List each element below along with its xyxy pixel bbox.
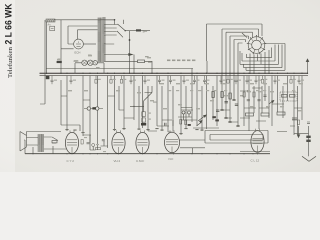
tube V5 envelope bbox=[165, 130, 180, 152]
capacitor bbox=[183, 76, 186, 85]
label near C2 bbox=[74, 60, 78, 61]
antenna coupling box A2 bbox=[50, 26, 55, 30]
capacitor C10 (dark) bbox=[141, 123, 146, 126]
resistor R20 (vertical) bbox=[297, 120, 299, 125]
tube V1 envelope bbox=[74, 39, 84, 54]
wire: box feed bbox=[180, 148, 205, 154]
resistor R26 bbox=[96, 148, 101, 150]
wire: socket loop 6 bbox=[238, 43, 243, 126]
capacitor C22 bbox=[247, 100, 250, 101]
wire: vertical x298.5 bottom bbox=[294, 126, 309, 136]
wire: vertical x148 bbox=[147, 86, 149, 131]
fuse F1 bbox=[136, 29, 145, 33]
scattered small labels bbox=[57, 55, 303, 111]
wire: vertical x124 bbox=[123, 76, 125, 130]
rectifier arrow D1 bbox=[127, 53, 133, 55]
value label bbox=[197, 80, 200, 81]
resistor R27 (vertical) bbox=[180, 120, 182, 125]
wire: R1 leads bbox=[145, 60, 153, 62]
resistor R13 (vertical) bbox=[243, 92, 245, 97]
ground bus (bottom) bbox=[25, 153, 270, 155]
wire: speaker to T2 bbox=[29, 137, 66, 149]
wire: vertical x287.5 bbox=[287, 76, 289, 101]
capacitor C2 (dark, on V1 drop) bbox=[57, 61, 62, 63]
junction dots on ground bus bbox=[32, 153, 258, 154]
value label bbox=[173, 80, 176, 81]
ferrite bead FB1 bbox=[92, 107, 95, 109]
fuse F2 on HT bus bbox=[46, 76, 50, 79]
capacitor C31 bbox=[307, 122, 310, 123]
capacitor bbox=[298, 76, 301, 85]
resistor R14 (vertical) bbox=[253, 92, 255, 97]
wire: vertical x244 bbox=[243, 76, 245, 126]
tube socket U1 inner ring bbox=[252, 40, 262, 50]
value label bbox=[73, 80, 76, 81]
wire: V5 anode link bbox=[180, 139, 206, 141]
wire: vertical x283 bbox=[282, 86, 284, 118]
resistor R25 (vertical) bbox=[81, 140, 83, 145]
transformer T1 core bbox=[101, 18, 102, 63]
junction bbox=[129, 39, 131, 41]
volume pot cluster wires bbox=[181, 110, 219, 128]
wire: vertical x249 bbox=[248, 76, 250, 131]
wire: ladder rail 2 bbox=[242, 45, 275, 62]
wire: vertical x90 bbox=[89, 76, 91, 150]
trimmer circle TC1 bbox=[92, 144, 95, 147]
wire: ladder verticals bbox=[250, 50, 269, 74]
wire: vertical x197 bbox=[196, 76, 198, 126]
capacitor C34 (blob) bbox=[306, 140, 310, 142]
resistor bbox=[121, 76, 123, 80]
tube pin circle P3 bbox=[182, 111, 185, 114]
capacitor bbox=[246, 76, 249, 85]
tube pin circle P4 bbox=[188, 111, 191, 114]
wire: misc horizontals mid-left bbox=[61, 96, 134, 118]
capacitor C17 (dark pair) bbox=[212, 116, 219, 121]
wire: vertical x202 bbox=[201, 86, 203, 131]
wire: coil link bbox=[75, 62, 104, 64]
tube socket U1 outer shell bbox=[248, 37, 265, 54]
switch S2 tone bbox=[52, 137, 58, 143]
value label bbox=[238, 80, 241, 81]
wire: feedback loop box inner bbox=[210, 135, 263, 141]
wire: V1 grid loop bbox=[68, 26, 98, 44]
transformer T1 secondary winding bbox=[102, 18, 105, 62]
resistor R1 bbox=[138, 60, 145, 63]
capacitor bbox=[255, 76, 258, 85]
tiny value labels top-left bbox=[58, 31, 152, 69]
wire: vertical x254b bbox=[253, 86, 255, 113]
coupling capacitors row bbox=[65, 128, 203, 134]
stack labels bbox=[148, 102, 157, 120]
value label bbox=[54, 80, 57, 81]
wire: vertical x272 bbox=[271, 76, 273, 126]
electrolytic capacitor C21 bbox=[96, 107, 99, 110]
wire: feedback loop box outer bbox=[205, 131, 268, 144]
value label bbox=[223, 80, 226, 81]
chassis rail left end bbox=[40, 20, 45, 104]
wire: vertical x83 bbox=[82, 76, 84, 136]
resistor R10 (vertical) bbox=[212, 92, 214, 98]
wire: vertical x142.5 bbox=[142, 76, 144, 128]
resistor R19 bbox=[277, 112, 285, 115]
wire: socket top-left diagonal bbox=[242, 33, 247, 38]
junction bbox=[133, 106, 134, 107]
wire: detector cluster bbox=[178, 108, 192, 121]
wire: vertical x173 bbox=[172, 86, 174, 131]
tone network dashed box N1 bbox=[280, 92, 297, 101]
coil L3 bbox=[93, 61, 97, 65]
wire: vertical x119 bbox=[118, 86, 120, 110]
wire: ladder rail 3 bbox=[240, 45, 279, 65]
wire: vertical x104 (transformer bottom) bbox=[103, 63, 105, 73]
capacitor bbox=[169, 76, 172, 85]
capacitor bbox=[235, 76, 238, 85]
capacitor C15 bbox=[235, 104, 238, 105]
wire: mid connectors bbox=[148, 131, 174, 132]
wire: vertical x168 bbox=[167, 76, 169, 132]
wire: loop rungs bbox=[222, 110, 238, 122]
wire: ladder rail 4 bbox=[244, 45, 283, 68]
wire: right-mid links bbox=[240, 88, 266, 121]
value label bbox=[258, 80, 261, 81]
wire: vertical x294 bbox=[293, 76, 295, 135]
wire: socket loop 3 bbox=[226, 32, 253, 118]
wire: vertical x75 bbox=[74, 63, 76, 73]
capacitor bbox=[144, 76, 147, 85]
triode section V3a wiring bbox=[130, 86, 152, 112]
component value labels (illegible scan text) bbox=[167, 60, 195, 62]
antenna input socket A1 (hatched) bbox=[46, 19, 55, 27]
wire: IF strip verticals left bbox=[61, 80, 80, 131]
wire: vertical x217 bbox=[216, 76, 218, 126]
resistor R17 bbox=[246, 113, 254, 116]
aerial/ground symbol G1 bbox=[302, 156, 316, 161]
wire: vertical x302 bbox=[301, 76, 303, 120]
wire: V1 top feed bbox=[78, 30, 98, 40]
wire: vertical x97.5 bbox=[97, 76, 99, 150]
wire: vertical x152 bbox=[151, 61, 153, 73]
wire: vertical x277.5 bbox=[277, 76, 279, 112]
capacitor bbox=[51, 76, 54, 85]
tube socket U1 pins bbox=[248, 37, 264, 53]
resistor R11 (vertical) bbox=[221, 92, 223, 98]
value label bbox=[113, 79, 116, 80]
wire: switch output bbox=[125, 30, 136, 32]
wire: socket loop 4 bbox=[230, 36, 249, 122]
wire: vertical x192 bbox=[191, 69, 193, 123]
wire: vertical x308.5 bottom bbox=[308, 126, 310, 156]
wire: horizontals right-mid bbox=[244, 104, 302, 108]
value label bbox=[277, 80, 280, 81]
value label bbox=[301, 80, 304, 81]
capacitor C18 bbox=[165, 123, 167, 126]
resistor bbox=[227, 76, 229, 80]
paper background bbox=[0, 0, 320, 172]
junction: mains node bbox=[114, 19, 116, 21]
tube socket U1 pin dots bbox=[247, 35, 267, 54]
wire: AVC link bbox=[84, 108, 103, 110]
output transformer T2 bbox=[38, 134, 44, 152]
wire: vertical x213 bbox=[212, 86, 214, 120]
wire: mains drop bbox=[115, 20, 130, 41]
value label bbox=[186, 80, 189, 81]
capacitor C23 bbox=[257, 100, 260, 101]
wire: vertical x162 bbox=[161, 86, 163, 131]
wire: vertical x134 bbox=[133, 55, 135, 121]
capacitor C30 bbox=[292, 118, 297, 120]
resistor R22 bbox=[52, 141, 57, 143]
value label bbox=[133, 80, 136, 81]
paper shading overlay bbox=[0, 0, 320, 172]
value label bbox=[123, 79, 126, 80]
tube V2 envelope bbox=[65, 130, 78, 153]
wire: bottom-left drops bbox=[24, 140, 53, 154]
wire: bottom horizontals right bbox=[277, 126, 295, 132]
wire: socket loop 5 bbox=[234, 40, 246, 101]
wire bbox=[55, 19, 115, 21]
diode arrow D4 bbox=[269, 100, 274, 104]
wire: vertical x129.5 bbox=[129, 41, 131, 73]
wire: vertical x67 bbox=[66, 76, 68, 131]
value label bbox=[147, 80, 150, 81]
value label bbox=[207, 80, 210, 81]
main HT bus (lower) bbox=[40, 75, 309, 77]
capacitor C24 bbox=[263, 95, 266, 96]
transformer T1 tap leads bbox=[104, 20, 137, 62]
transformer T1 primary winding bbox=[98, 18, 101, 62]
coil L2 bbox=[88, 60, 93, 65]
resistor R18 bbox=[261, 113, 269, 116]
resistor R8 bbox=[142, 112, 146, 117]
wire: vertical x262 bbox=[261, 86, 263, 113]
wire: AF coupling bbox=[157, 120, 173, 126]
wire: AF cluster links bbox=[83, 135, 108, 150]
capacitor bbox=[130, 76, 133, 85]
AF cluster labels bbox=[84, 137, 106, 152]
wire: speaker top link bbox=[27, 132, 62, 136]
resistor R15 bbox=[282, 95, 288, 98]
capacitor bbox=[158, 76, 161, 85]
coil L1 bbox=[82, 60, 87, 65]
wire: vertical x207 bbox=[206, 61, 209, 129]
wire: socket loop 2 bbox=[222, 29, 259, 110]
electrolytic capacitor C20 bbox=[87, 107, 90, 110]
wire: vertical x265 bbox=[264, 76, 266, 101]
second value label row bbox=[168, 90, 295, 91]
resistor R16 bbox=[290, 95, 296, 98]
wire: vertical x107.7 bbox=[107, 76, 109, 148]
capacitor bbox=[70, 76, 73, 85]
wire: socket loop 1 bbox=[207, 24, 263, 61]
wire: vertical x181 bbox=[180, 76, 182, 135]
wire: rail y68.5 bbox=[46, 68, 193, 70]
resistor bbox=[110, 76, 112, 80]
capacitor bbox=[220, 76, 223, 85]
wire: vertical x186 bbox=[185, 86, 187, 129]
wire: vertical x269 bbox=[268, 86, 270, 118]
wire: antenna lead down bbox=[46, 22, 48, 74]
resistor bbox=[290, 76, 292, 80]
wire: ladder rail 1 bbox=[247, 48, 272, 58]
wire: vertical x259 bbox=[258, 76, 260, 129]
wire: bottom right rail bbox=[240, 151, 270, 153]
value label bbox=[293, 79, 296, 80]
junction dots on HT bus bbox=[60, 73, 308, 74]
resistor R9 bbox=[142, 118, 146, 122]
capacitor C27 bbox=[102, 140, 105, 141]
wire: left drop from V1 bbox=[61, 20, 74, 74]
potentiometer P2 arrow bbox=[198, 115, 206, 121]
wire: vertical x139 bbox=[138, 86, 140, 130]
wire: fuse to lamp bbox=[141, 29, 150, 31]
resistor bbox=[262, 76, 264, 80]
capacitor bbox=[274, 76, 277, 85]
switch S1 voltage selector bbox=[113, 24, 126, 37]
diode arrow D2 bbox=[297, 135, 300, 138]
tube V3 envelope bbox=[112, 130, 125, 153]
wire: vertical x114.5 bbox=[114, 76, 116, 131]
value label bbox=[264, 79, 267, 80]
value label bbox=[162, 80, 165, 81]
main HT bus (upper) bbox=[40, 72, 309, 74]
capacitor bbox=[193, 76, 196, 85]
capacitor C14 bbox=[225, 102, 228, 103]
value label bbox=[249, 80, 252, 81]
resistor R12 (vertical) bbox=[229, 93, 231, 99]
wire: vertical x157 bbox=[156, 76, 158, 126]
loudspeaker LS1 bbox=[20, 132, 29, 152]
value label bbox=[98, 79, 101, 80]
capacitor C26 bbox=[87, 143, 90, 144]
output arrow P1 bbox=[306, 59, 309, 74]
capacitor C16 bbox=[216, 110, 219, 111]
wire: vertical x297.5 bbox=[297, 86, 299, 135]
capacitor C33 (blob) bbox=[306, 136, 310, 138]
diode arrow D3 bbox=[197, 120, 203, 126]
capacitor C19 (dark) bbox=[188, 124, 191, 126]
resistor R28 (vertical) bbox=[185, 120, 187, 125]
capacitor bbox=[203, 76, 206, 85]
resistor bbox=[95, 76, 97, 80]
tube V6 envelope bbox=[251, 129, 264, 153]
end blobs on loop verticals bbox=[220, 99, 239, 126]
value label bbox=[230, 79, 233, 80]
wire: socket right lead bbox=[265, 44, 285, 71]
wire: V1 anode right bbox=[83, 43, 96, 45]
wire: ladder rail 5 bbox=[246, 68, 285, 71]
tube V4 envelope bbox=[136, 130, 149, 153]
